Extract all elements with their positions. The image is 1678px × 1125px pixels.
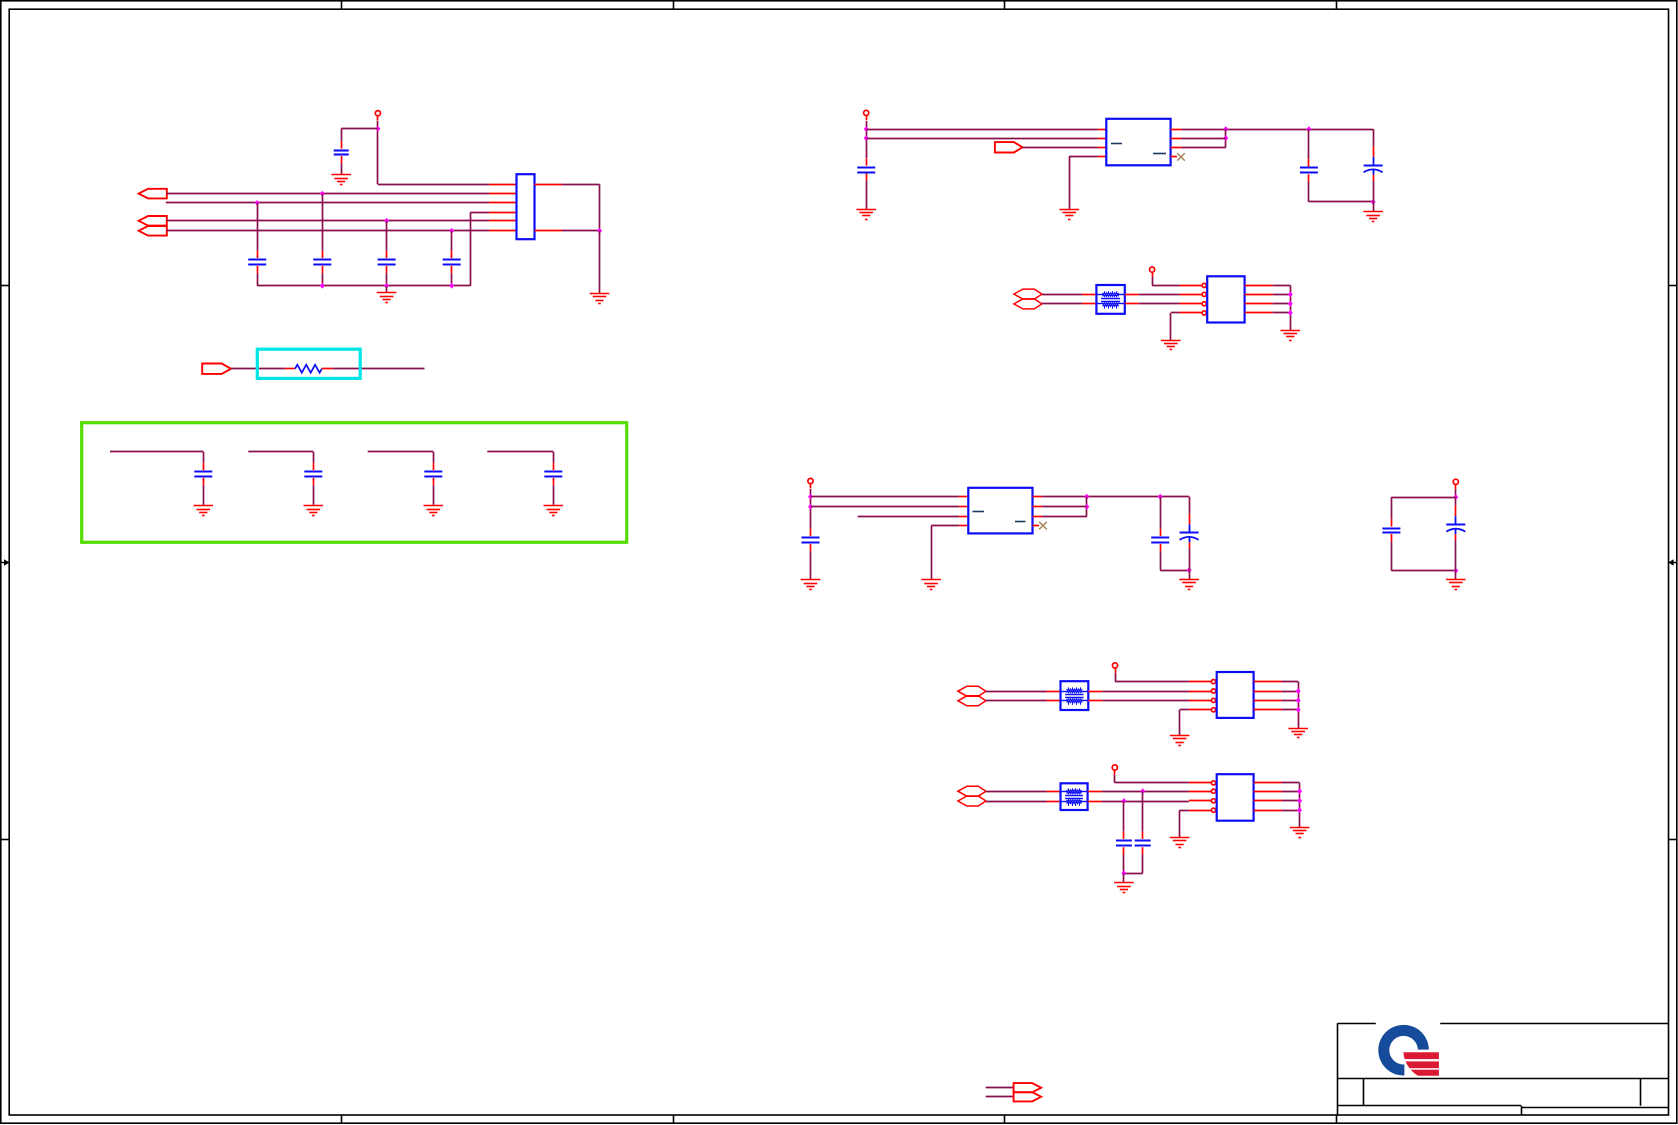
wire A12 [986, 1087, 1014, 1089]
wire U2 gnd [1171, 312, 1180, 314]
wire T1 out2 [1139, 303, 1180, 305]
junction P2a [864, 126, 869, 132]
pin stub U5-4 [1189, 810, 1212, 812]
wire P1 down [377, 121, 379, 184]
off-page connector A10 [958, 786, 986, 796]
pin stub U3 out2 [1033, 506, 1043, 508]
capacitor C9 [544, 463, 562, 506]
pin stub U2-4 [1180, 312, 1203, 314]
pin stub U3 out3 [1033, 516, 1043, 518]
wire R1 right [333, 368, 425, 370]
wire J1 gnd drop [599, 231, 601, 294]
pin stub U1-4 [1098, 156, 1106, 158]
ground G21 [1290, 828, 1310, 838]
regulator U3 [968, 488, 1032, 534]
ground G19 [1114, 883, 1134, 893]
wire C18 bottom [1124, 873, 1143, 875]
junction U1 fb2 [1223, 135, 1228, 141]
wire U2 out2 [1273, 294, 1291, 296]
junction C15 bottom [1187, 567, 1192, 573]
zone tick bottom 1 [341, 1115, 343, 1123]
pin stub U5-2 [1189, 791, 1212, 793]
connector J1 [517, 174, 535, 239]
title block cell divider A [1363, 1078, 1365, 1106]
pin bubble U2-2 [1202, 292, 1206, 296]
capacitor C17 polarized [1446, 497, 1465, 571]
center arrow right [1668, 559, 1677, 566]
pin stub U5-3 [1189, 800, 1212, 802]
wire cell2 [248, 451, 313, 453]
wire U1 out [1181, 129, 1373, 131]
junction T3-C18 [1140, 788, 1145, 794]
pin stub T1-4 [1125, 303, 1139, 305]
wire U3 in [811, 496, 960, 498]
wire net4 [167, 230, 489, 232]
wire cell4 [487, 451, 553, 453]
wire J1 right top [562, 184, 600, 186]
pin bubble U5-2 [1211, 789, 1215, 793]
pin stub U2-1 [1180, 285, 1203, 287]
wire P4 down [810, 489, 812, 528]
wire P7 to U5 [1114, 775, 1116, 783]
ground G20 [1170, 838, 1190, 848]
ground G4 [194, 506, 214, 516]
wire U1 out3 [1181, 147, 1225, 149]
wire net1 [167, 193, 489, 195]
pin stub T2-3 [1088, 691, 1102, 693]
wire C2 drop [322, 194, 324, 251]
wire C15 gnd [1189, 570, 1191, 579]
wire U5 out1 [1282, 782, 1300, 784]
pin stub U1 out3 [1171, 147, 1182, 149]
pin stub U3 out1 [1033, 496, 1043, 498]
junction P4b [808, 504, 813, 510]
capacitor C12 polarized [1364, 129, 1383, 202]
pin stub U5 out3 [1254, 800, 1282, 802]
wire J1 right bottom [562, 230, 600, 232]
junction U4 o2 [1296, 688, 1301, 694]
pin bubble U4-3 [1211, 698, 1215, 702]
wire C4 drop [386, 221, 388, 251]
U1 mark2 [1153, 153, 1166, 155]
wire A13 [986, 1096, 1014, 1098]
wire C19 gnd [1123, 873, 1125, 883]
off-page connector A3 [139, 226, 167, 236]
pin stub U4-1 [1189, 681, 1212, 683]
pin bubble U4-4 [1211, 708, 1215, 712]
transformer T3 [1061, 783, 1088, 810]
pin bubble U5-3 [1211, 799, 1215, 803]
capacitor C3 [248, 251, 266, 286]
wire C5 drop [451, 231, 453, 251]
junction bus-gnd [384, 283, 389, 289]
capacitor C5 [443, 251, 461, 286]
zone tick right 1 [1669, 285, 1677, 287]
wire U3 in2 [811, 506, 960, 508]
wire cap bus [257, 285, 470, 287]
U3 mark2 [1015, 521, 1025, 523]
wire U3 out2 [1042, 506, 1087, 508]
junction bus-C5 [449, 283, 454, 289]
pin stub U3-4 [959, 525, 968, 527]
pin bubble U2-4 [1202, 311, 1206, 315]
title block left edge [1337, 1023, 1339, 1115]
pin stub J1-6 [489, 230, 517, 232]
wire cell3 [368, 451, 434, 453]
junction U4 o3 [1296, 698, 1301, 704]
resistor R1 [295, 365, 322, 373]
pin stub U1 out1 [1171, 129, 1182, 131]
wire P2 down [866, 121, 868, 158]
power node P1 [375, 111, 380, 121]
pin bubble U4-1 [1211, 680, 1215, 684]
pin stub J1-5 [489, 220, 517, 222]
transformer T2 [1061, 681, 1089, 710]
ground G2 [377, 293, 397, 303]
center arrow left [1, 559, 10, 566]
junction U2 o3 [1288, 301, 1293, 307]
pin bubble U5-4 [1211, 808, 1215, 812]
pin stub U5-1 [1189, 782, 1212, 784]
pin stub T1-3 [1125, 294, 1139, 296]
wire T1 out1 [1139, 294, 1180, 296]
pin stub U2 out1 [1245, 285, 1273, 287]
ground G13 [801, 580, 821, 590]
off-page connector A8 [958, 686, 986, 696]
power node P6 [1112, 663, 1117, 673]
U3 mark1 [973, 511, 985, 513]
zone tick left 2 [1, 839, 9, 841]
capacitor C18 [1135, 830, 1151, 873]
pin stub J1-1 [489, 184, 517, 186]
ground G1 [331, 175, 351, 185]
power node P5 [1453, 479, 1458, 489]
wire U2 out4 [1273, 312, 1291, 314]
pin stub U4-2 [1189, 691, 1212, 693]
zone tick bottom 2 [673, 1115, 675, 1123]
pin stub U1 nc [1171, 156, 1177, 158]
junction P5 [1453, 494, 1458, 500]
wire U1 in2 [866, 138, 1098, 140]
title block row divider [1337, 1078, 1668, 1080]
off-page connector A4 [202, 364, 231, 374]
transformer T1 [1096, 285, 1124, 314]
pin stub J1-4 [489, 212, 517, 214]
zone tick top 2 [673, 1, 675, 9]
wire pin1 J1 [378, 184, 489, 186]
wire T3 in2 [986, 801, 1047, 803]
pin stub T1-2 [1082, 303, 1096, 305]
wire U1 gnd [1069, 156, 1098, 158]
wire U4 out4 [1282, 709, 1298, 711]
ground G18 [1288, 729, 1308, 738]
title block strip top right [1521, 1107, 1668, 1109]
wire U2 out3 [1273, 303, 1291, 305]
pin stub U5 out1 [1254, 782, 1282, 784]
power node P4 [808, 478, 813, 488]
pin stub U4 out3 [1254, 700, 1282, 702]
ground G15 [1179, 580, 1199, 590]
wire P1 to C1 [341, 128, 378, 130]
ground G6 [424, 506, 444, 516]
pin stub U2 out3 [1245, 303, 1273, 305]
title block strip top left [1337, 1105, 1521, 1107]
logo Q ring [1378, 1025, 1431, 1077]
pin stub T3-1 [1047, 791, 1061, 793]
pin stub U5 out2 [1254, 791, 1282, 793]
junction U5 o3 [1297, 798, 1302, 804]
pin stub R1-1 [285, 368, 295, 370]
wire T2 in1 [986, 691, 1047, 693]
wire U3 fb drop [1086, 497, 1088, 517]
wire T3 in1 [986, 791, 1047, 793]
pin stub U4 out4 [1254, 709, 1282, 711]
junction C12 bottom [1371, 199, 1376, 205]
ic U5 [1217, 774, 1254, 821]
wire C3 drop [257, 203, 259, 251]
zone tick top 4 [1336, 1, 1338, 9]
wire C11 bottom [1309, 201, 1373, 203]
wire U3 out [1042, 496, 1189, 498]
logo background [1376, 1022, 1440, 1077]
capacitor C1 [334, 139, 349, 175]
pin stub U3 nc [1033, 525, 1040, 527]
off-page connector A11 [958, 796, 986, 806]
pin stub T3-2 [1047, 801, 1061, 803]
wire C14 bottom [1160, 570, 1189, 572]
pin stub U1-1 [1098, 129, 1106, 131]
wire F top [1391, 497, 1455, 499]
pin stub J1-3 [489, 202, 517, 204]
title block top line [1337, 1023, 1668, 1025]
ic U2 [1207, 276, 1244, 322]
pin stub J1 out1 [535, 184, 563, 186]
off-page connector A13 [1014, 1092, 1042, 1101]
ground G8 [856, 210, 876, 220]
wire net2 [166, 202, 489, 204]
power node P3 [1150, 267, 1155, 277]
wire U3 en [858, 516, 959, 518]
junction C19 bottom [1121, 870, 1126, 876]
pin stub U5 out4 [1254, 810, 1282, 812]
pin stub U1 out2 [1171, 138, 1182, 140]
junction U2 o4 [1288, 310, 1293, 316]
junction net4-C5 [449, 228, 454, 234]
capacitor C13 [802, 528, 820, 580]
junction net2-C3 [255, 200, 260, 206]
wire R1 left [231, 368, 285, 370]
capacitor C2 [313, 251, 331, 286]
wire P5 down [1455, 489, 1457, 497]
wire T2 out1 [1102, 691, 1189, 693]
off-page connector A2 [139, 216, 167, 226]
junction U5 o2 [1297, 788, 1302, 794]
junction P1 [375, 126, 380, 132]
ground G17 [1170, 736, 1190, 746]
wire P6 to U4 [1115, 673, 1117, 682]
wire C17 gnd [1455, 571, 1457, 580]
power node P7 [1112, 765, 1117, 775]
junction U2 o2 [1288, 292, 1293, 298]
junction C11 top [1306, 126, 1311, 132]
wire bus gnd drop [386, 286, 388, 293]
junction U3 fb2 [1084, 504, 1089, 510]
capacitor C6 [194, 463, 212, 506]
wire T2 out2 [1102, 700, 1189, 702]
zone tick top 1 [341, 1, 343, 9]
pin stub T3-4 [1088, 801, 1102, 803]
wire U1 out2 [1181, 138, 1225, 140]
regulator U1 [1106, 119, 1170, 166]
pin stub U4 out2 [1254, 691, 1282, 693]
pin stub T2-2 [1047, 700, 1061, 702]
wire U1 en [1022, 147, 1098, 149]
junction P2b [864, 135, 869, 141]
junction T3-C19 [1121, 798, 1126, 804]
zone tick left 1 [1, 285, 9, 287]
ground G10 [1363, 212, 1383, 222]
pin stub U4-3 [1189, 700, 1212, 702]
pin stub U4-4 [1189, 709, 1212, 711]
highlight box green [82, 423, 627, 543]
off-page connector A6 [1014, 289, 1042, 299]
capacitor C7 [304, 463, 322, 506]
ground G5 [304, 506, 324, 516]
wire C18 drop [1142, 791, 1144, 830]
off-page connector A1 [139, 189, 167, 199]
capacitor C10 [857, 158, 875, 209]
pin stub U1-2 [1098, 138, 1106, 140]
wire C12 gnd [1373, 202, 1375, 212]
wire U4 gnd [1180, 709, 1189, 711]
ground G14 [921, 580, 941, 590]
wire T3 out2 [1102, 801, 1189, 803]
wire U3 gnd [931, 525, 959, 527]
pin stub R1-2 [322, 368, 333, 370]
pin stub T2-4 [1088, 700, 1102, 702]
wire U4 out2 [1282, 691, 1298, 693]
wire F bottom [1391, 570, 1455, 572]
pin bubble U2-1 [1202, 283, 1206, 287]
wire T1 in1 [1042, 294, 1083, 296]
pin stub U2-3 [1180, 303, 1203, 305]
wire U5 out4 [1282, 810, 1300, 812]
zone tick bottom 3 [1004, 1115, 1006, 1123]
wire U1 in [866, 129, 1098, 131]
wire U4 out1 [1282, 681, 1298, 683]
capacitor C19 [1116, 830, 1132, 873]
pin stub U2 out4 [1245, 312, 1273, 314]
pin stub T3-3 [1088, 791, 1102, 793]
wire U3 out3 [1042, 516, 1087, 518]
ground G11 [1161, 341, 1181, 350]
junction J1 right [597, 228, 602, 234]
wire net3 [167, 220, 489, 222]
capacitor C14 [1151, 497, 1169, 571]
junction C14 top [1158, 494, 1163, 500]
highlight box cyan [257, 349, 360, 378]
pin stub U3-3 [959, 516, 968, 518]
pin stub U1-3 [1098, 147, 1106, 149]
title block cell divider B [1640, 1078, 1642, 1106]
off-page connector A5 [995, 142, 1023, 152]
junction U4 o4 [1296, 707, 1301, 713]
logo stripes [1403, 1052, 1439, 1076]
wire T1 in2 [1042, 303, 1083, 305]
zone tick top 3 [1004, 1, 1006, 9]
wire U4 out3 [1282, 700, 1298, 702]
wire P3 to U2 [1152, 277, 1154, 285]
junction F bottom [1453, 568, 1458, 574]
pin stub J1 out2 [535, 230, 563, 232]
junction U5 o4 [1297, 807, 1302, 813]
wire C19 drop [1123, 801, 1125, 830]
junction net3-C4 [384, 218, 389, 224]
wire T2 in2 [986, 700, 1047, 702]
junction U3 fb1 [1084, 494, 1089, 500]
wire cell1 [110, 451, 203, 453]
wire U1 fb drop [1225, 129, 1227, 147]
ground G16 [1446, 580, 1466, 590]
capacitor C16 [1382, 516, 1400, 571]
pin stub U3-1 [959, 496, 968, 498]
no-connect U1 [1177, 153, 1185, 161]
pin stub U2 out2 [1245, 294, 1273, 296]
off-page connector A12 [1014, 1083, 1042, 1092]
pin stub T2-1 [1047, 691, 1061, 693]
pin stub U3-2 [959, 506, 968, 508]
pin bubble U2-3 [1202, 302, 1206, 306]
junction net1-C2 [320, 191, 325, 197]
no-connect U3 [1039, 522, 1047, 530]
pin stub J1-2 [489, 193, 517, 195]
zone tick bottom 4 [1336, 1115, 1338, 1123]
ground G9 [1060, 210, 1080, 220]
capacitor C11 [1300, 129, 1318, 202]
capacitor C8 [424, 463, 442, 506]
wire U5 out3 [1282, 800, 1300, 802]
ground G3 [590, 294, 610, 304]
ic U4 [1217, 672, 1254, 718]
junction U1 fb [1223, 126, 1228, 132]
junction P4a [808, 494, 813, 500]
off-page connector A9 [958, 696, 986, 706]
pin bubble U4-2 [1211, 689, 1215, 693]
capacitor C15 polarized [1180, 497, 1199, 571]
wire T3 out1 [1102, 791, 1189, 793]
pin stub U2-2 [1180, 294, 1203, 296]
pin bubble U5-1 [1211, 781, 1215, 785]
ground G12 [1281, 331, 1301, 341]
wire U5 gnd [1180, 810, 1189, 812]
ground G7 [544, 506, 564, 516]
capacitor C4 [378, 251, 396, 286]
zone tick right 2 [1669, 839, 1677, 841]
junction bus-C2 [320, 283, 325, 289]
wire U5 out2 [1282, 791, 1300, 793]
off-page connector A7 [1014, 299, 1042, 309]
title block strip divider [1521, 1106, 1523, 1115]
power node P2 [864, 110, 869, 120]
wire U2 out1 [1273, 285, 1291, 287]
pin stub U4 out1 [1254, 681, 1282, 683]
pin stub T1-1 [1082, 294, 1096, 296]
U1 mark1 [1111, 143, 1122, 145]
